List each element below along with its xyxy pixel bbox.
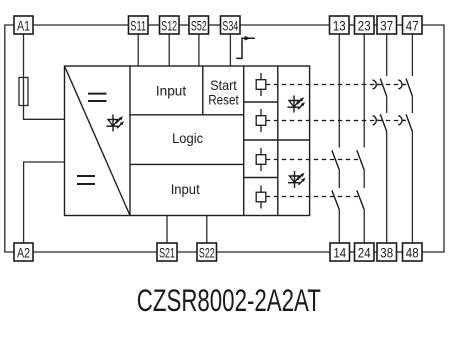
svg-text:14: 14 xyxy=(333,245,346,260)
svg-text:37: 37 xyxy=(380,18,393,33)
wire power supply to A2 xyxy=(24,162,65,243)
LED D2 (channel 1) xyxy=(288,96,303,113)
terminal 48 xyxy=(403,243,423,261)
delay arc xyxy=(373,116,377,125)
wire 14 to 24 xyxy=(350,251,355,253)
divider logic/input2 row xyxy=(130,163,244,165)
wire S11 down to block xyxy=(137,34,139,66)
wire S34 to 13 xyxy=(240,24,330,26)
svg-text:S21: S21 xyxy=(159,245,175,260)
terminal A2 xyxy=(14,243,33,261)
wire contact to 14 xyxy=(338,210,340,243)
svg-text:13: 13 xyxy=(333,18,346,33)
wire 23 down to contact xyxy=(363,34,365,148)
wire 13 between contacts xyxy=(338,170,340,188)
divider coil/led column xyxy=(277,66,279,216)
delayed contact 47 level2 blade xyxy=(398,114,412,131)
wire A2 to S21 xyxy=(33,251,157,253)
contact 13 upper blade xyxy=(332,150,339,170)
divider power/input xyxy=(129,66,131,216)
wire S22 to 14 xyxy=(217,251,331,253)
relay coil K4 xyxy=(256,186,266,209)
dashed link coil K2 to contacts xyxy=(266,120,406,122)
wire S12 to S52 xyxy=(179,24,189,26)
delay arc xyxy=(398,116,402,125)
svg-text:Input: Input xyxy=(156,83,186,99)
contact 23 lower blade xyxy=(357,190,364,209)
dashed link coil K1 to contacts xyxy=(266,84,406,86)
svg-text:23: 23 xyxy=(358,18,371,33)
fuse F1 xyxy=(19,78,28,106)
wire S52 to S34 xyxy=(209,24,221,26)
wire 24 to 38 xyxy=(374,251,377,253)
terminal S11 xyxy=(129,16,149,34)
divider input/startreset xyxy=(202,66,204,115)
wire 47 down to contact xyxy=(411,34,413,76)
dashed link coil K3 to contacts xyxy=(266,159,358,161)
main block outline xyxy=(65,66,310,216)
wire contact to 24 xyxy=(363,210,365,243)
svg-text:S34: S34 xyxy=(222,18,238,33)
wire A1 down through fuse to power supply xyxy=(24,34,65,119)
svg-text:47: 47 xyxy=(406,18,419,33)
divider logic/coils xyxy=(243,66,245,216)
wire top rail left of A1 xyxy=(5,25,14,252)
terminal 23 xyxy=(355,16,375,34)
terminal 37 xyxy=(377,16,397,34)
svg-text:A1: A1 xyxy=(17,18,30,33)
delayed contact 37 level2 blade xyxy=(373,114,387,131)
terminal 47 xyxy=(403,16,423,34)
delay arc xyxy=(398,80,402,89)
terminal S22 xyxy=(197,243,217,261)
wire 47 right side down to 48 xyxy=(422,25,444,252)
wire 47 between contacts xyxy=(411,96,413,113)
svg-text:Reset: Reset xyxy=(208,91,239,107)
terminal 13 xyxy=(330,16,350,34)
divider input/logic row xyxy=(130,114,244,116)
wire S21 up to block xyxy=(166,216,168,244)
terminal 14 xyxy=(330,243,350,261)
DC symbol lower xyxy=(77,176,95,184)
wire 13 down to contact xyxy=(338,34,340,148)
svg-text:S11: S11 xyxy=(130,18,146,33)
wire 37 between contacts xyxy=(386,96,388,113)
wire 23 to 37 xyxy=(374,24,377,26)
wire A1 to S11 xyxy=(33,24,129,26)
svg-text:24: 24 xyxy=(358,245,371,260)
terminal 24 xyxy=(355,243,375,261)
wire S21 to S22 xyxy=(177,251,197,253)
terminal S34 xyxy=(221,16,241,34)
divider coil1/coil2 xyxy=(244,101,278,103)
wire S12 down to block xyxy=(168,34,170,66)
svg-text:48: 48 xyxy=(406,245,419,260)
svg-text:Input: Input xyxy=(171,181,200,197)
dashed link coil K4 to contacts xyxy=(266,196,358,198)
divider coil2/coil3 full xyxy=(244,139,310,141)
svg-text:A2: A2 xyxy=(17,245,30,260)
svg-text:S12: S12 xyxy=(161,18,177,33)
wire contact to 48 xyxy=(411,132,413,244)
terminal A1 xyxy=(14,16,33,34)
divider coil3/coil4 xyxy=(244,177,278,179)
delayed contact 47 level1 blade xyxy=(398,79,412,97)
wire 37 to 47 xyxy=(397,24,403,26)
power supply diagonal xyxy=(65,66,131,216)
wire contact to 38 xyxy=(386,132,388,244)
wire 37 down to contact xyxy=(386,34,388,76)
wire 13 to 23 xyxy=(349,24,355,26)
terminal S21 xyxy=(157,243,177,261)
delayed contact 37 level1 blade xyxy=(373,79,387,97)
LED D1 (power) xyxy=(107,115,122,132)
terminal 38 xyxy=(377,243,397,261)
terminal S52 xyxy=(189,16,209,34)
svg-text:S52: S52 xyxy=(191,18,207,33)
terminal S12 xyxy=(160,16,180,34)
svg-text:CZSR8002-2A2AT: CZSR8002-2A2AT xyxy=(137,282,321,318)
contact 23 upper blade xyxy=(357,150,364,170)
svg-text:Logic: Logic xyxy=(172,131,203,146)
LED D3 (channel 2) xyxy=(288,171,303,188)
relay coil K1 xyxy=(256,73,266,96)
wire S34 down to block xyxy=(229,34,231,66)
delay arc xyxy=(373,80,377,89)
svg-text:S22: S22 xyxy=(199,245,215,260)
wire S22 up to block xyxy=(206,216,208,244)
wire 23 between contacts xyxy=(363,170,365,188)
manual start arrow at S34 xyxy=(236,38,255,58)
contact 13 lower blade xyxy=(332,190,339,209)
wire 38 to 48 xyxy=(397,251,403,253)
wire S52 down to block xyxy=(198,34,200,66)
wire S11 to S12 xyxy=(148,24,160,26)
relay coil K3 xyxy=(256,148,266,171)
relay coil K2 xyxy=(256,109,266,132)
DC symbol upper xyxy=(88,94,107,101)
svg-text:38: 38 xyxy=(380,245,393,260)
